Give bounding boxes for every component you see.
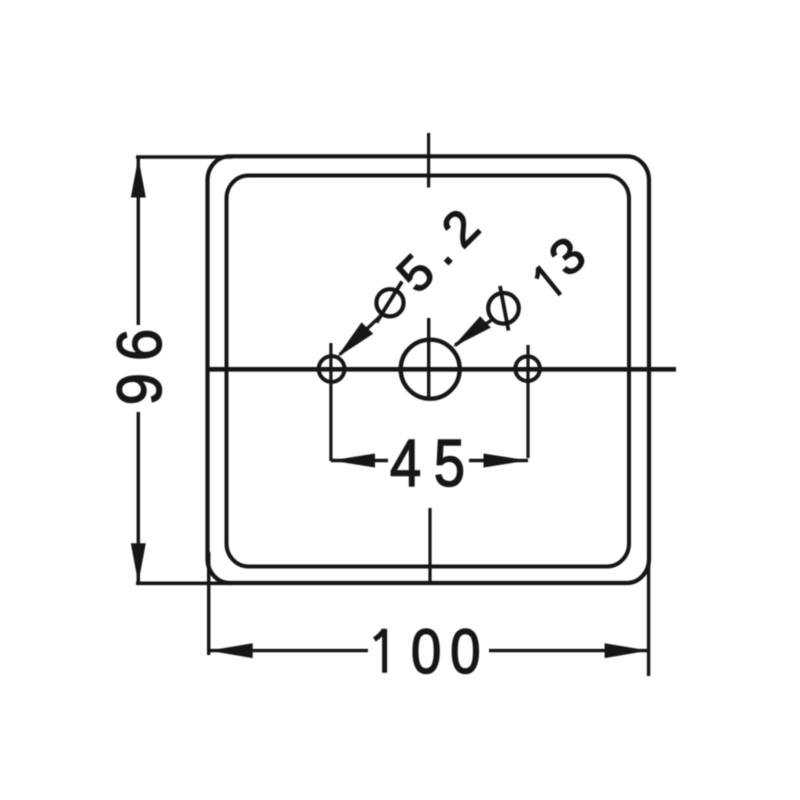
leader line for 5.2 dia — [340, 317, 380, 355]
svg-text:96: 96 — [104, 317, 175, 405]
dim 100 left extension line — [207, 552, 210, 655]
center hole vertical crosshair — [427, 318, 430, 399]
dia symbol slash for 5.2 — [377, 282, 403, 323]
dim 96 line lower segment — [137, 412, 140, 583]
dim 96 bottom arrowhead — [131, 543, 146, 583]
bottom vertical centerline — [428, 508, 431, 585]
dim 100 left arrowhead — [209, 643, 253, 658]
top vertical centerline — [427, 133, 430, 188]
dim 100 right arrowhead — [605, 643, 649, 658]
dim 45 line right segment — [469, 459, 528, 462]
panel outer outline — [208, 156, 650, 583]
custom glyph 1 of 13 — [531, 267, 560, 300]
leader line for 13 dia — [455, 319, 493, 345]
panel inner outline — [227, 176, 630, 567]
dim 96 top arrowhead — [131, 158, 146, 198]
custom glyph 1 of 100 — [374, 629, 384, 673]
left hole circle (5.2 dia) — [319, 356, 345, 382]
right hole crosshair / extension line to 45 dim — [526, 345, 529, 458]
horizontal centerline — [208, 367, 677, 372]
dia symbol circle for 13 — [488, 293, 519, 324]
dim 45 left arrowhead — [331, 454, 375, 468]
dim 96 bottom extension line — [136, 581, 232, 585]
leader arrowhead for 13 dia — [453, 316, 491, 347]
leader arrowhead for 5.2 dia — [337, 322, 374, 357]
dim 96 line upper segment — [137, 158, 140, 326]
leader text dia 13 — [471, 222, 600, 341]
dim 100 right extension line — [647, 562, 650, 676]
dim 96 top extension line — [136, 155, 232, 159]
center hole circle (13 dia) — [401, 340, 460, 399]
dim 45 line left segment — [331, 459, 388, 462]
dim 45 right arrowhead — [484, 454, 528, 468]
right hole circle (5.2 dia) — [515, 356, 540, 381]
dia symbol circle for 5.2 — [376, 289, 403, 316]
dim 100 line left segment — [209, 649, 368, 652]
svg-text:45: 45 — [390, 426, 478, 501]
dim 100 line right segment — [489, 649, 649, 652]
dia symbol slash for 13 — [500, 286, 509, 331]
left hole crosshair / extension line to 45 dim — [329, 343, 332, 461]
